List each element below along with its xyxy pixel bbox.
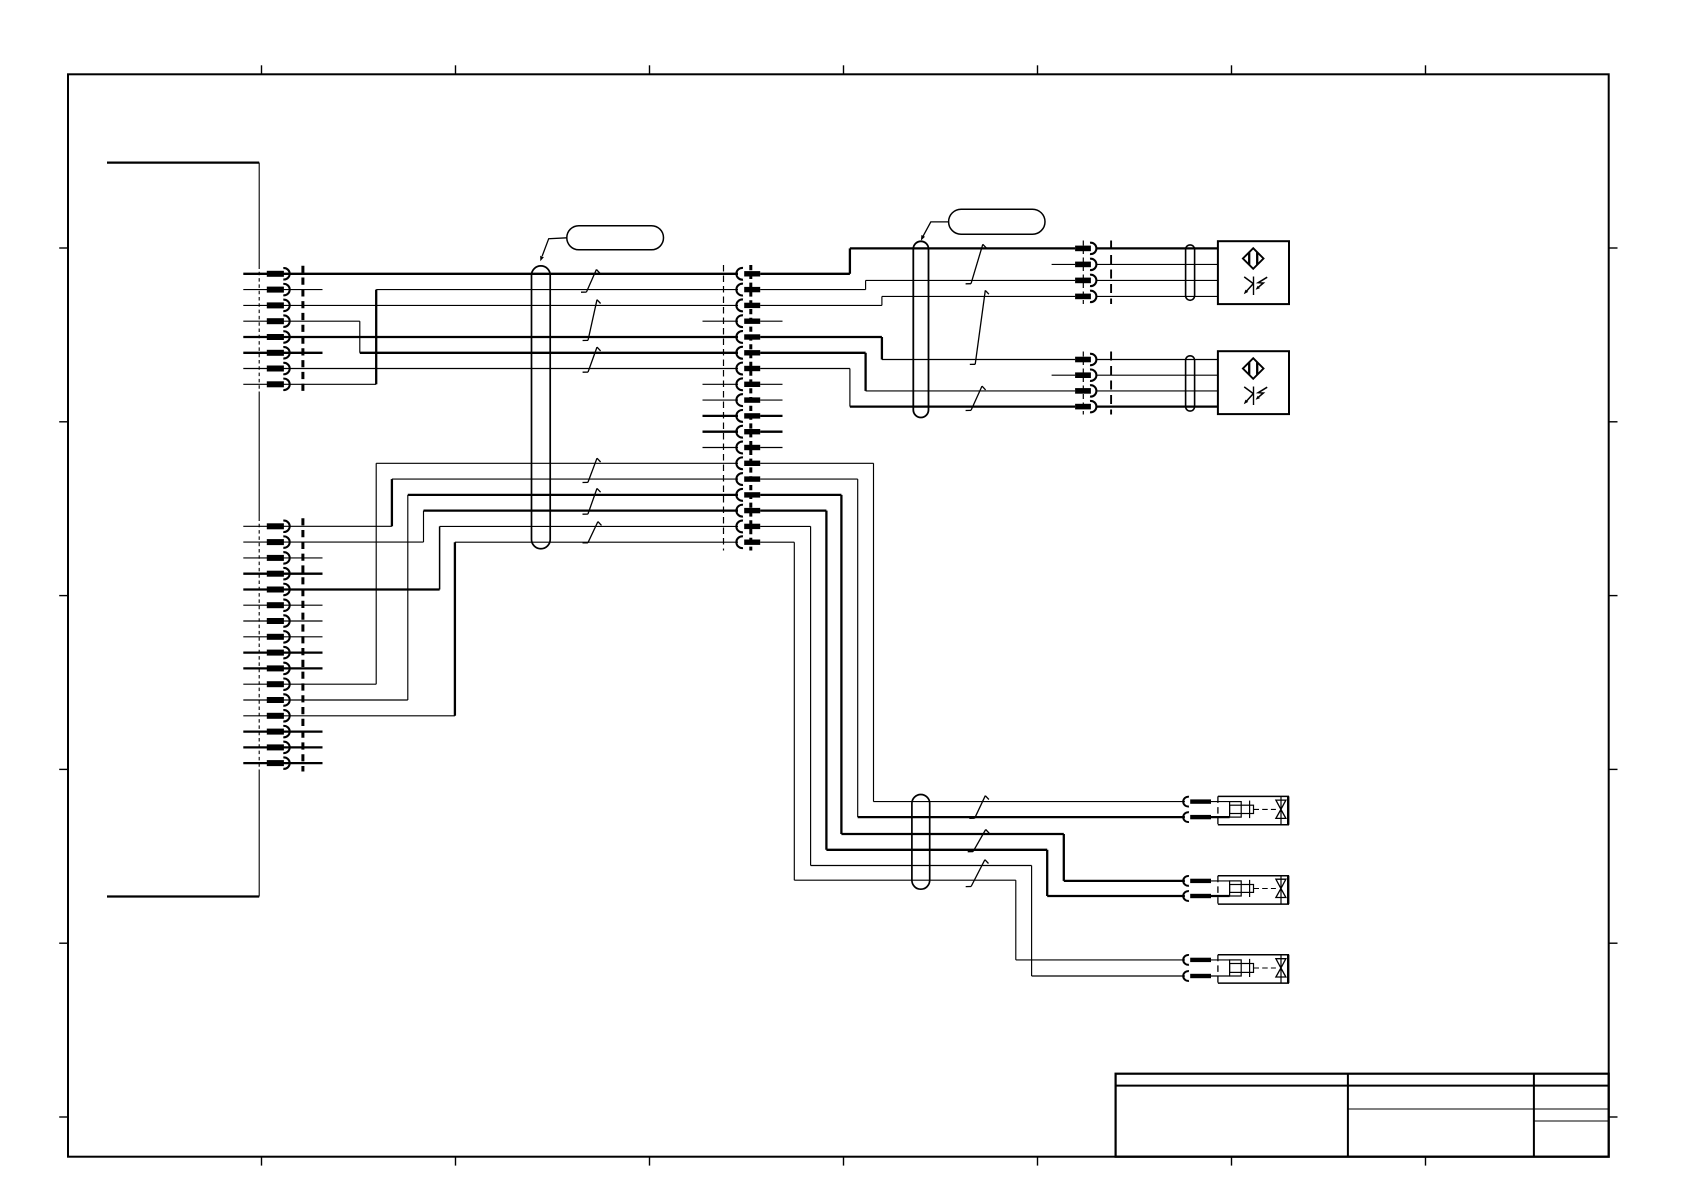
count slash nets 17-18: [588, 522, 598, 543]
wire X1.B4 stub: [243, 573, 322, 575]
wire X1.B14 stub: [243, 730, 322, 732]
count slash sensor B2 wires c: [971, 386, 982, 410]
solenoid valve Y2: [1211, 876, 1289, 904]
count slash nets 6-7: [588, 347, 597, 372]
wire X1.B12 riser to X2.15 (net 15): [243, 699, 407, 701]
wire X2.4 right stub: [760, 320, 782, 322]
controller block A1 outline top: [107, 161, 259, 163]
count slash nets 1-2: [586, 270, 596, 293]
wire X1.B7 stub: [243, 620, 322, 622]
connector X2 mating line (dashed): [749, 265, 752, 551]
cable shield sensor B2 lead: [1186, 356, 1195, 411]
wire X2.14 to Y1 pin2 (net 14): [760, 478, 858, 480]
count slash nets 15-16: [588, 488, 597, 514]
wire X1.B9 stub: [243, 651, 322, 653]
wire X2.1 to B1 sensor pin1 (net 1): [760, 273, 850, 275]
wire B2 pin1 lead: [1097, 359, 1218, 361]
title block: [1116, 1074, 1609, 1157]
count slash nets 13-14: [588, 458, 597, 482]
connector X1 upper pins 1-8: [267, 268, 290, 390]
connector X1 lower boundary (dashed): [258, 518, 260, 772]
controller block A1 outline bottom: [107, 895, 259, 897]
count slash sensor B1 wires a: [971, 244, 983, 283]
connector X2 pins 1-18: [736, 268, 760, 548]
wire X1.B8 stub: [243, 636, 322, 638]
photoelectric sensor B1: [1218, 241, 1289, 304]
wire B2 pin3 lead: [1097, 390, 1218, 392]
wire X1.B1 riser to X2.14 (net 14): [243, 525, 392, 527]
cable label W2 leader: [923, 222, 949, 236]
wire B1 sensor pin2 stub: [1052, 263, 1076, 265]
solenoid valve Y3: [1211, 955, 1289, 983]
wire X2.4 left stub: [703, 320, 739, 322]
connector X1 upper boundary (dashed): [258, 266, 260, 393]
wire X2.5 to B2 sensor pin1 (net 5): [760, 336, 882, 338]
connector Y3 pins (valve 3): [1183, 955, 1211, 981]
wire X2.9 right stub: [760, 399, 782, 401]
wire X1.A5 to X2.5 (net 5): [243, 336, 738, 338]
wire X2.17 to Y3 pin2 (net 17): [760, 525, 810, 527]
photoelectric sensor B2: [1218, 351, 1289, 414]
cable label W2 (empty oval): [949, 209, 1045, 234]
connector X4 pins 1-4 (sensor B2): [1075, 354, 1096, 413]
wire X2.2 net via riser to X1.A8: [376, 289, 738, 291]
wire X1.B2 riser to X2.16 (net 16): [243, 541, 423, 543]
wire X1.B16 stub: [243, 762, 322, 764]
wire B2 sensor pin2 stub: [1052, 374, 1076, 376]
wire X2.11 right stub: [760, 431, 782, 433]
wire X2.6 to B2 sensor pin3 (net 6): [760, 352, 865, 354]
wire X1.B10 stub: [243, 667, 322, 669]
wire X1.B3 stub: [243, 557, 322, 559]
cable shield W1: [532, 266, 551, 549]
wire X1.B11 riser to X2.13 (net 13): [243, 683, 376, 685]
wire B1 pin1 lead: [1097, 247, 1218, 249]
connector X1 lower mating line (dashed): [301, 518, 304, 771]
connector X1 lower pins 1-16: [267, 521, 290, 769]
wire X1.B15 stub: [243, 746, 322, 748]
connector X3 pins 1-4 (sensor B1): [1075, 243, 1096, 302]
connector X3 right boundary (dashed): [1110, 241, 1112, 305]
solenoid valve Y1: [1211, 796, 1289, 824]
connector X3 mating line (dashed): [1082, 241, 1084, 305]
wire X2.8 right stub: [760, 383, 782, 385]
connector X4 right boundary (dashed): [1110, 352, 1112, 415]
cable label W1 (empty oval): [567, 226, 664, 250]
cable label W1 leader: [542, 238, 567, 256]
wire X2.8 left stub: [703, 383, 739, 385]
cable shield sensor B1 lead: [1186, 245, 1195, 300]
wire X2.18 to Y3 pin1 (net 18): [760, 541, 794, 543]
wire X1.B6 stub: [243, 604, 322, 606]
count slash valve Y3 pair: [971, 860, 985, 887]
wire B1 pin3 lead: [1097, 279, 1218, 281]
wire B2 pin2 lead: [1097, 374, 1218, 376]
cable shield W2: [913, 241, 928, 417]
wire X1.A2 stub: [243, 289, 322, 291]
connector Y1 pins (valve 1): [1183, 797, 1211, 822]
connector X4 mating line (dashed): [1082, 352, 1084, 415]
wire X1.B13 riser to X2.18 (net 18): [243, 715, 455, 717]
wire X1.A7 to X2.7 (net 7): [243, 368, 738, 370]
wire X1.A3 to X2.3 (net 3): [243, 304, 738, 306]
wire X1.A1 to X2.1 (net 1): [243, 273, 738, 275]
wire X1.B5 riser to X2.17 (net 17): [243, 588, 439, 590]
wire X2.16 to Y2 pin2 (net 16): [760, 509, 826, 511]
count slash valve Y2 pair: [973, 830, 986, 852]
wire X2.13 to Y1 pin1 (net 13): [760, 462, 873, 464]
wire X2.9 left stub: [703, 399, 739, 401]
wire X2.10 left stub: [703, 415, 739, 417]
wire X2.12 left stub: [703, 447, 739, 449]
connector Y2 pins (valve 2): [1183, 876, 1211, 901]
count slash valve Y1 pair: [975, 796, 986, 819]
connector X1 upper mating line (dashed): [301, 266, 304, 393]
wire X2.3 to B1 sensor pin4 (net 3): [760, 304, 882, 306]
connector X2 left boundary (dashed): [723, 265, 725, 551]
wire X2.11 left stub: [703, 431, 739, 433]
wire X2.10 right stub: [760, 415, 782, 417]
wire B2 pin4 lead: [1097, 405, 1218, 407]
wire X2.15 to Y2 pin1 (net 15): [760, 494, 841, 496]
wire X2.12 right stub: [760, 447, 782, 449]
count slash sensor wires b: [975, 290, 985, 364]
count slash nets 3,5: [588, 300, 597, 341]
wire X2.7 to B2 sensor pin4 (net 7): [760, 368, 850, 370]
wire B1 pin4 lead: [1097, 295, 1218, 297]
wire X2.2 to B1 sensor pin3 (net 2): [760, 289, 865, 291]
controller block A1 right edge solid segments: [258, 163, 260, 266]
wire B1 pin2 lead: [1097, 263, 1218, 265]
cable shield W3: [912, 795, 930, 890]
wire X1.A6 stub: [243, 352, 322, 354]
wire X1.A4 riser to X2.6 (net 6): [243, 320, 359, 322]
